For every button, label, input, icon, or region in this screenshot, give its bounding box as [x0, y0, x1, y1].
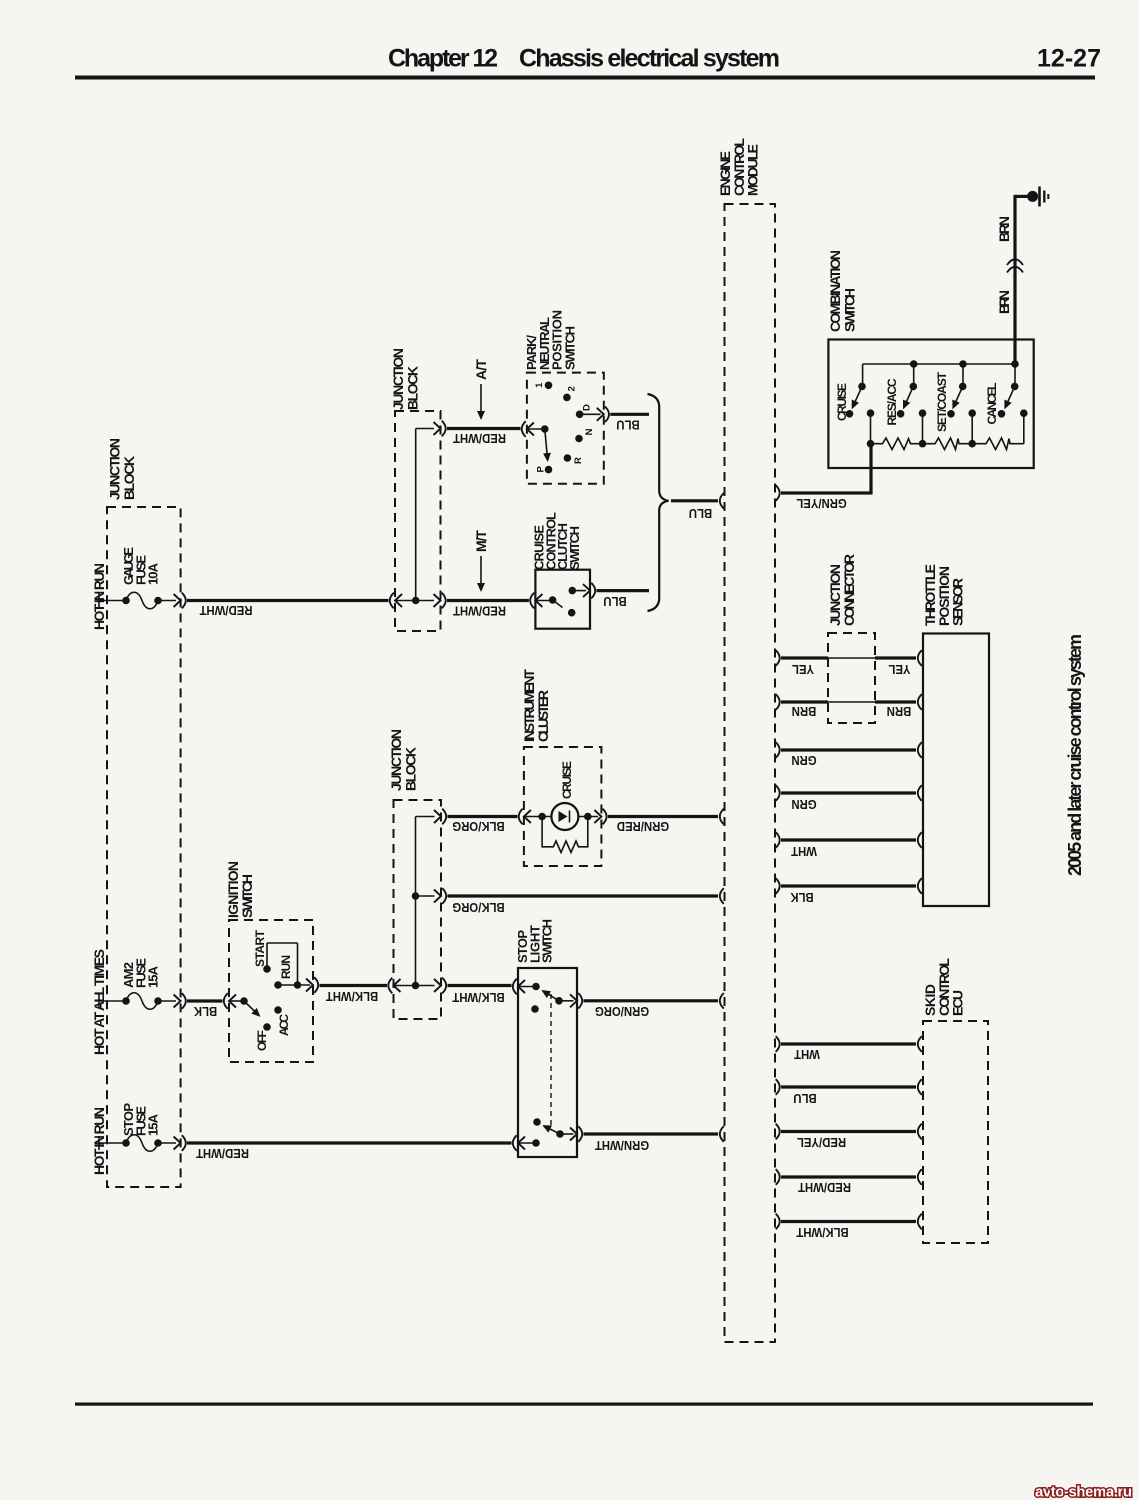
mechanical link (dashed): [550, 994, 552, 1129]
svg-text:BLK/WHT: BLK/WHT: [796, 1225, 849, 1240]
resistor R1 (cruise chain): [871, 438, 923, 450]
svg-text:RED/WHT: RED/WHT: [453, 603, 506, 618]
wire YEL (ECM to TPS via junction connector): [781, 658, 916, 677]
wire BRN (combination switch to ground): [996, 196, 1028, 363]
ignition switch internals: OFF ACC RUN START: [229, 929, 310, 1051]
connector (ECM right edge, YEL): [776, 650, 780, 666]
svg-text:BLK/WHT: BLK/WHT: [452, 990, 505, 1005]
switch CRUISE: [835, 383, 866, 421]
svg-text:IGNITIONSWITCH: IGNITIONSWITCH: [225, 861, 255, 918]
svg-text:BRN: BRN: [792, 704, 817, 719]
svg-text:STOPFUSE15A: STOPFUSE15A: [121, 1103, 161, 1136]
lamp CRUISE indicator: [524, 761, 598, 830]
net HOT IN RUN (gauge fuse feed): [91, 563, 107, 630]
switch: STOP LIGHT SWITCH: [515, 919, 577, 1157]
wire RED/WHT (ECM to skid ECU): [781, 1177, 916, 1195]
svg-text:INSTRUMENTCLUSTER: INSTRUMENTCLUSTER: [521, 669, 551, 742]
svg-text:GRN/RED: GRN/RED: [617, 819, 669, 834]
page header rule: [75, 76, 1095, 80]
wire BLU (ECM to skid ECU): [781, 1087, 916, 1106]
svg-text:avto-shema.ru: avto-shema.ru: [1035, 1484, 1132, 1500]
connector (skid ECU left edge, RED/YEL): [918, 1124, 922, 1140]
svg-text:A/T: A/T: [473, 359, 489, 380]
svg-text:1: 1: [534, 382, 545, 388]
svg-text:BLU: BLU: [793, 1091, 816, 1106]
connector (ECM right edge, RED/WHT): [776, 1169, 780, 1185]
svg-text:YEL: YEL: [792, 662, 815, 677]
wire BLK/WHT (JB3 to stop light switch): [448, 986, 512, 1005]
connector (ignition switch right edge): [306, 977, 318, 993]
svg-text:BRN: BRN: [996, 290, 1012, 314]
svg-text:12-27: 12-27: [1037, 45, 1101, 73]
chain junction nodes: [867, 440, 976, 448]
connector (ECM right edge, GRN 2): [776, 785, 780, 801]
wire GRN/ORG (stop switch to ECM): [584, 1001, 719, 1019]
svg-text:CRUISE: CRUISE: [560, 761, 574, 799]
connector (JB3 left edge, BLK/WHT in): [388, 978, 400, 994]
svg-text:OFF: OFF: [255, 1030, 269, 1051]
connector (ECM right edge, BLK/WHT): [776, 1214, 780, 1230]
resistor R2: [923, 438, 973, 450]
connector (ECM left edge, GRN/WHT): [720, 1126, 724, 1142]
connector (ECM right edge, GRN 1): [776, 742, 780, 758]
wire RED/WHT (stop fuse to stop light switch): [187, 1143, 512, 1161]
connector (clutch switch left edge): [530, 593, 542, 609]
svg-text:BLK/ORG: BLK/ORG: [452, 819, 504, 834]
connector (TPS left edge, BLK): [918, 878, 922, 894]
resistor chain contacts: [867, 409, 1028, 443]
connector (JB3 right edge, to cluster): [434, 809, 446, 825]
label M/T with arrow: [473, 530, 489, 590]
wire GRN/RED (cluster to ECM): [608, 817, 718, 834]
svg-text:JUNCTIONBLOCK: JUNCTIONBLOCK: [107, 438, 138, 500]
resistor R3: [972, 438, 1024, 450]
svg-text:RED/WHT: RED/WHT: [199, 603, 252, 618]
clutch switch internals: [535, 587, 586, 617]
junction block JB2 (A/T - M/T): [390, 348, 441, 631]
svg-text:RES/ACC: RES/ACC: [885, 378, 899, 425]
svg-text:BLK: BLK: [790, 890, 813, 905]
svg-text:2005 and later cruise control: 2005 and later cruise control system: [1065, 634, 1085, 876]
connector (stop switch left edge, RED/WHT): [513, 1135, 525, 1151]
svg-text:M/T: M/T: [473, 530, 489, 552]
svg-text:SKIDCONTROLECU: SKIDCONTROLECU: [922, 958, 966, 1016]
instrument cluster box: [521, 669, 601, 866]
wire BLK/WHT (ignition to JB3): [320, 986, 388, 1004]
sensor: THROTTLE POSITION SENSOR: [922, 564, 989, 906]
wire BLK/ORG (JB3 to instrument cluster): [448, 817, 518, 834]
ground G1: [1027, 187, 1048, 207]
wire GRN/WHT (stop switch to ECM): [584, 1134, 719, 1153]
svg-text:BLU: BLU: [689, 506, 712, 521]
svg-text:THROTTLEPOSITIONSENSOR: THROTTLEPOSITIONSENSOR: [922, 564, 966, 626]
ECM: ENGINE CONTROL MODULE: [717, 138, 775, 1342]
svg-text:AM2FUSE15A: AM2FUSE15A: [121, 958, 161, 988]
svg-text:STOPLIGHTSWITCH: STOPLIGHTSWITCH: [515, 919, 555, 963]
connector (ECM left edge, GRN/ORG): [720, 993, 724, 1009]
svg-text:2: 2: [567, 386, 578, 391]
connector (P/N switch left edge): [522, 421, 534, 437]
wire WHT (ECM to skid ECU): [781, 1044, 916, 1062]
svg-text:SET/COAST: SET/COAST: [935, 371, 949, 432]
connector (ECM right edge, WHT skid): [776, 1036, 780, 1052]
svg-text:CRUISECONTROLCLUTCHSWITCH: CRUISECONTROLCLUTCHSWITCH: [532, 512, 582, 570]
stop switch pole 2: [518, 1118, 574, 1147]
connector (JB3 right edge, BLK/ORG 2): [434, 888, 446, 904]
wire GRN/YEL (ECM to combination switch): [781, 444, 871, 511]
switch: CRUISE CONTROL CLUTCH SWITCH: [532, 512, 591, 629]
fuse STOP FUSE 15A: [99, 1103, 176, 1152]
wire BLK (AM2 fuse to ignition switch): [187, 1001, 223, 1019]
connector (ECM right edge, BLU skid): [776, 1079, 780, 1095]
junction connector box: [827, 554, 875, 723]
connector (ECM right edge, WHT): [776, 832, 780, 848]
connector (ECM left edge, GRN/RED): [720, 809, 724, 825]
svg-text:BRN: BRN: [996, 216, 1012, 242]
svg-text:BLU: BLU: [616, 417, 639, 432]
wire RED/WHT (A/T branch): [447, 429, 520, 446]
wire BLU (from P/N switch D): [610, 414, 649, 432]
switch: PARK/NEUTRAL POSITION SWITCH: [524, 310, 604, 484]
connector (TPS left edge, YEL): [918, 650, 922, 666]
COMBINATION SWITCH box: [827, 250, 1034, 468]
svg-text:GAUGEFUSE10A: GAUGEFUSE10A: [121, 547, 161, 585]
connector (skid ECU left edge, RED/WHT): [918, 1169, 922, 1185]
svg-text:WHT: WHT: [791, 844, 817, 859]
svg-text:RED/WHT: RED/WHT: [196, 1146, 249, 1161]
svg-text:BLU: BLU: [603, 594, 626, 609]
svg-text:START: START: [253, 929, 267, 967]
bottom rule: [75, 1403, 1093, 1406]
connector (ECM right edge, RED/YEL): [776, 1124, 780, 1140]
connector (skid ECU left edge, WHT): [918, 1036, 922, 1052]
svg-text:ENGINECONTROLMODULE: ENGINECONTROLMODULE: [717, 138, 761, 196]
svg-text:GRN: GRN: [791, 797, 816, 812]
label A/T with arrow: [473, 359, 489, 418]
SKID CONTROL ECU box: [922, 958, 988, 1243]
switch CANCEL: [985, 383, 1019, 425]
wire RED/YEL (ECM to skid ECU): [781, 1132, 916, 1150]
svg-text:CRUISE: CRUISE: [835, 383, 849, 421]
svg-text:RED/WHT: RED/WHT: [798, 1180, 851, 1195]
JB3 internals: riser and junctions: [394, 817, 435, 990]
P/N switch internals: common, wiper arm, contacts P R N D 2 1: [527, 382, 601, 474]
wire GRN (ECM to TPS): [781, 750, 916, 768]
wire RED/WHT (gauge fuse to JB2): [187, 601, 389, 618]
wire GRN (ECM to TPS) second: [781, 793, 916, 812]
connector (ECM right edge, BLK): [776, 878, 780, 894]
connector (cluster left edge): [519, 809, 531, 825]
connector (ignition switch left edge): [224, 993, 236, 1009]
svg-text:GRN/YEL: GRN/YEL: [796, 496, 847, 511]
wire BLU (merged, into ECM): [671, 501, 718, 521]
svg-text:BLK/ORG: BLK/ORG: [452, 900, 504, 915]
svg-text:Chapter 12: Chapter 12: [388, 45, 498, 73]
connector (ECM right edge, GRN/YEL): [776, 485, 780, 501]
svg-text:RED/YEL: RED/YEL: [796, 1135, 846, 1150]
switch RES/ACC: [885, 378, 917, 425]
connector (JB2 right edge, A/T branch out): [434, 421, 446, 437]
connector (JB1 right edge, AM2 fuse output): [174, 993, 186, 1009]
connector (JB1 right edge, stop fuse output): [174, 1135, 186, 1151]
svg-text:R: R: [573, 457, 584, 464]
svg-text:GRN/WHT: GRN/WHT: [594, 1138, 649, 1153]
connector (TPS left edge, WHT): [918, 832, 922, 848]
svg-text:WHT: WHT: [794, 1047, 820, 1062]
connector (ECM left edge, BLU): [720, 493, 724, 509]
svg-text:N: N: [584, 428, 595, 435]
fuse AM2 FUSE 15A: [99, 958, 176, 1010]
svg-text:D: D: [581, 404, 592, 411]
connector (TPS left edge, BRN): [918, 694, 922, 710]
connector (clutch switch right edge): [583, 583, 595, 599]
connector (cluster right edge): [594, 809, 606, 825]
svg-text:BRN: BRN: [887, 704, 912, 719]
connector (ECM left edge, BLK/ORG): [720, 888, 724, 904]
resistor (cluster lamp bypass): [542, 817, 588, 853]
connector (JB3 right edge, BLK/WHT out): [434, 978, 446, 994]
junction block JB3 (cluster feed): [388, 729, 441, 1019]
connector (skid ECU left edge, BLU): [918, 1079, 922, 1095]
svg-text:PARK/NEUTRALPOSITIONSWITCH: PARK/NEUTRALPOSITIONSWITCH: [524, 310, 577, 370]
junction block JB1 (left, fuse block): [107, 438, 181, 1187]
wire BLK/WHT (ECM to skid ECU): [781, 1222, 916, 1240]
svg-text:JUNCTIONBLOCK: JUNCTIONBLOCK: [390, 348, 421, 410]
connector (TPS left edge, GRN 1): [918, 742, 922, 758]
net HOT IN RUN (stop fuse feed): [91, 1107, 107, 1175]
stop switch pole 1: [518, 983, 574, 1013]
combination switch bus: [863, 360, 1019, 385]
inline connector on BRN wire: [1007, 259, 1023, 272]
wire RED/WHT (M/T branch): [447, 601, 529, 619]
connector (ECM right edge, BRN): [776, 694, 780, 710]
connector (P/N switch right edge, D output): [597, 407, 609, 423]
connector (TPS left edge, GRN 2): [918, 785, 922, 801]
wire (inside JB2) + node junction: [395, 429, 434, 605]
brace merging the two BLU wires: [648, 394, 669, 611]
svg-text:BLK/WHT: BLK/WHT: [325, 989, 378, 1004]
svg-text:YEL: YEL: [888, 662, 911, 677]
connector (stop switch right edge, GRN/WHT): [570, 1126, 582, 1142]
svg-text:GRN: GRN: [791, 753, 816, 768]
svg-text:JUNCTIONCONNECTOR: JUNCTIONCONNECTOR: [827, 554, 857, 626]
connector (stop switch right edge, GRN/ORG): [570, 993, 582, 1009]
fuse GAUGE FUSE 10A: [99, 547, 176, 609]
connector (stop switch left edge, BLK/WHT): [513, 979, 525, 995]
connector (JB1 right edge, gauge fuse output): [174, 593, 186, 609]
connector (JB2 left edge, main wire in): [390, 593, 402, 609]
svg-text:JUNCTIONBLOCK: JUNCTIONBLOCK: [388, 729, 419, 791]
svg-text:COMBINATIONSWITCH: COMBINATIONSWITCH: [827, 250, 858, 332]
switch SET/COAST: [935, 371, 967, 432]
wire BLK/ORG (JB3 to ECM): [448, 896, 719, 915]
wire WHT (ECM to TPS): [781, 840, 916, 859]
switch: IGNITION SWITCH: [225, 861, 313, 1062]
connector (skid ECU left edge, BLK/WHT): [918, 1214, 922, 1230]
svg-text:P: P: [535, 465, 546, 472]
wire BLK (ECM to TPS): [781, 886, 916, 905]
wire BRN (ECM to TPS via junction connector): [781, 702, 916, 719]
connector (JB2 right edge, M/T branch out): [434, 593, 446, 609]
wire BLU (from clutch switch): [597, 591, 650, 609]
svg-text:Chassis electrical system: Chassis electrical system: [519, 45, 780, 73]
svg-text:CANCEL: CANCEL: [985, 383, 999, 425]
svg-text:RED/WHT: RED/WHT: [453, 431, 506, 446]
net HOT AT ALL TIMES (AM2 fuse feed): [91, 949, 107, 1055]
svg-text:ACC: ACC: [277, 1014, 291, 1036]
svg-text:GRN/ORG: GRN/ORG: [595, 1004, 649, 1019]
svg-text:RUN: RUN: [279, 955, 293, 979]
svg-text:BLK: BLK: [194, 1004, 217, 1019]
